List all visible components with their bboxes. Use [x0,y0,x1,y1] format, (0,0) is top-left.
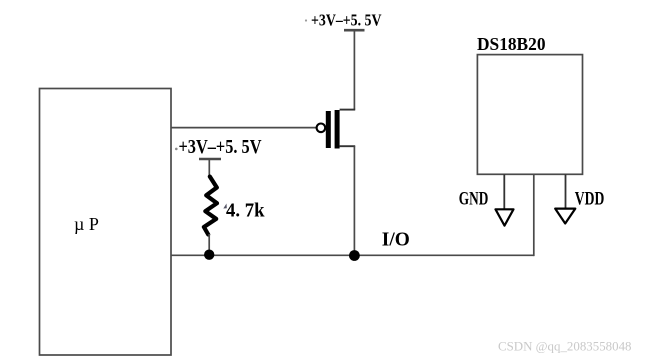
DS18B20 U2 box [477,55,582,175]
svg-text:4. 7k: 4. 7k [226,201,265,222]
microprocessor U1 box [40,89,172,356]
resistor R1 4.7k (zigzag) [204,177,217,235]
svg-text:GND: GND [459,189,489,210]
wire: I/O up to DS18B20 DQ pin [533,174,535,256]
speck: dot left of pull-up supply label [175,148,178,151]
wire: Q1 drain down to I/O node [353,146,355,255]
svg-text:µ P: µ P [74,214,99,234]
svg-text:VDD: VDD [575,189,605,210]
power supply bar (pull-up) [199,158,221,161]
wire: µP to Q1 gate [171,127,317,129]
VDD arrow (open triangle) [555,209,575,224]
node: R1 / I/O junction [204,250,214,260]
speck: tick before 4.7k label [223,204,227,209]
pin VDD of DS18B20 [565,174,567,208]
wire: I/O bus (µP to DS18B20 branch) [171,254,534,256]
svg-text:I/O: I/O [382,230,410,251]
GND arrow (open triangle) [496,209,514,225]
svg-text:CSDN @qq_2083558048: CSDN @qq_2083558048 [498,339,632,354]
svg-text:+3V–+5. 5V: +3V–+5. 5V [179,137,262,158]
node: Q1 drain / I/O junction [349,250,360,261]
svg-text:+3V–+5. 5V: +3V–+5. 5V [311,10,382,29]
wire: supply bar to R1 top [208,160,210,178]
speck: dot left of top supply label [305,19,307,21]
svg-text:DS18B20: DS18B20 [477,34,546,54]
transistor Q1 (P-MOSFET) [317,110,356,149]
wire: supply bar to Q1 source lead [353,31,355,110]
wire: R1 bottom to I/O node [208,234,210,255]
pin GND of DS18B20 [503,174,505,209]
power supply bar (top) [344,29,365,32]
